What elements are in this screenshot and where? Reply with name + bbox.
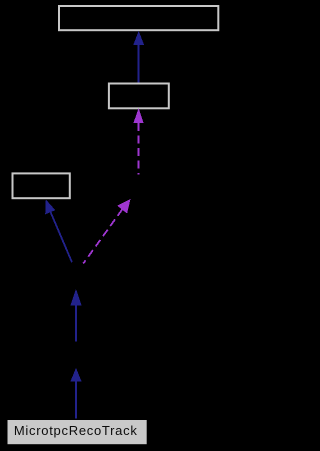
template relation arrow E2 (hidden node to node2, dashed purple): [134, 108, 144, 175]
inheritance arrow E1 (node2 to node1, solid navy): [133, 31, 144, 83]
node box MicrotpcRecoTrack (current class, gray fill): [8, 420, 147, 444]
node box 3 (left parent class, text hidden): [13, 173, 70, 198]
svg-text:MicrotpcRecoTrack: MicrotpcRecoTrack: [14, 423, 138, 438]
node box 2 (template instance class, text hidden): [109, 84, 169, 109]
inheritance arrow E5 (hidden node4 to hidden node7, solid navy): [71, 289, 82, 341]
inheritance arrow E3 (hidden node to node3, diagonal solid navy): [45, 200, 72, 263]
inheritance arrow E6 (MicrotpcRecoTrack to hidden node4, solid navy): [71, 368, 82, 419]
template relation arrow E4 (hidden node to hidden right node, diagonal dashed purple): [83, 199, 130, 264]
node box 1 (top parent class, text hidden): [59, 6, 218, 30]
